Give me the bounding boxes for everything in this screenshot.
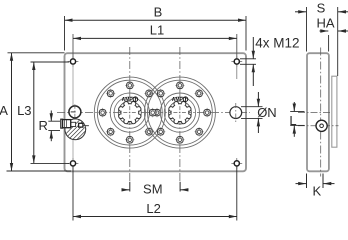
side view port axis centerline — [298, 125, 339, 127]
dimension L3 line — [33, 62, 35, 163]
dimension L arrows — [293, 102, 295, 112]
svg-text:S: S — [317, 1, 326, 16]
vertical centerline right flange — [179, 47, 181, 183]
right port circle N — [230, 107, 242, 119]
dimension S arrows — [295, 11, 306, 13]
dimension N extension lines — [241, 106, 263, 108]
svg-text:ØN: ØN — [257, 105, 277, 120]
svg-text:L: L — [289, 113, 296, 128]
mounting hole top-left — [68, 56, 79, 67]
housing front view body — [65, 53, 247, 171]
svg-text:SM: SM — [143, 182, 163, 197]
left port small bolt square — [79, 123, 83, 127]
dimension L extension lines — [290, 111, 304, 113]
svg-text:R: R — [39, 118, 48, 133]
svg-text:L1: L1 — [150, 23, 164, 38]
dimension SM arrows — [122, 189, 130, 191]
left port white patch — [83, 120, 87, 127]
dimension M12 arrows — [252, 37, 254, 59]
dimension K ticks — [306, 174, 308, 189]
dimension S extension lines — [306, 7, 308, 52]
dimension HA arrows — [320, 30, 329, 32]
svg-text:AMP: AMP — [122, 97, 134, 103]
svg-text:AMP: AMP — [172, 97, 184, 103]
dimension K arrows — [296, 183, 307, 185]
dimension A line — [11, 53, 13, 171]
mounting hole top-right — [231, 56, 242, 67]
left dowel hole centerline — [74, 104, 76, 119]
side view flange plate — [332, 76, 337, 147]
dimension SM ticks — [129, 182, 131, 192]
left port plug flange bar — [61, 119, 63, 128]
side view body — [307, 53, 329, 171]
left port connector piece — [71, 122, 76, 126]
svg-text:A: A — [0, 103, 8, 118]
side view vertical centerline — [320, 48, 322, 177]
horizontal centerline main axis — [57, 112, 250, 114]
dimension L2 extension lines — [72, 166, 74, 220]
mounting hole bottom-left — [68, 158, 79, 169]
mounting hole bottom-right — [231, 158, 242, 169]
dimension M12 extension lines — [240, 58, 256, 60]
dimension B line — [65, 19, 247, 21]
dimension L1 extension lines — [72, 34, 74, 58]
dimension B extension lines — [64, 16, 66, 51]
svg-text:4x M12: 4x M12 — [255, 35, 299, 50]
left flange with spline bore and bolts — [94, 77, 165, 148]
left port circle edge redraw — [65, 119, 86, 140]
side view main axis centerline — [298, 111, 332, 113]
dimension L2 line — [73, 216, 237, 218]
right port centerline — [235, 103, 237, 123]
left port sectioned circle with hatching — [65, 119, 86, 140]
extension line through left holes — [72, 65, 74, 161]
right flange with spline bore and bolts — [144, 77, 215, 148]
vertical centerline left flange — [129, 47, 131, 183]
side view port circle — [316, 120, 327, 131]
dimension A extension lines — [8, 52, 65, 54]
dimension R extension lines — [48, 120, 60, 122]
svg-text:HA: HA — [316, 16, 334, 31]
dimension HA extension line — [328, 35, 330, 52]
left port plug body — [63, 120, 71, 128]
dimension L1 line — [73, 37, 237, 39]
left dowel hole — [69, 106, 81, 118]
dimension R arrows — [50, 111, 52, 122]
svg-text:K: K — [312, 184, 321, 199]
dimension N arrows — [257, 92, 259, 107]
svg-text:L3: L3 — [17, 103, 31, 118]
svg-text:B: B — [154, 4, 163, 19]
svg-text:L2: L2 — [146, 201, 160, 216]
dimension L3 extension lines — [31, 61, 70, 63]
